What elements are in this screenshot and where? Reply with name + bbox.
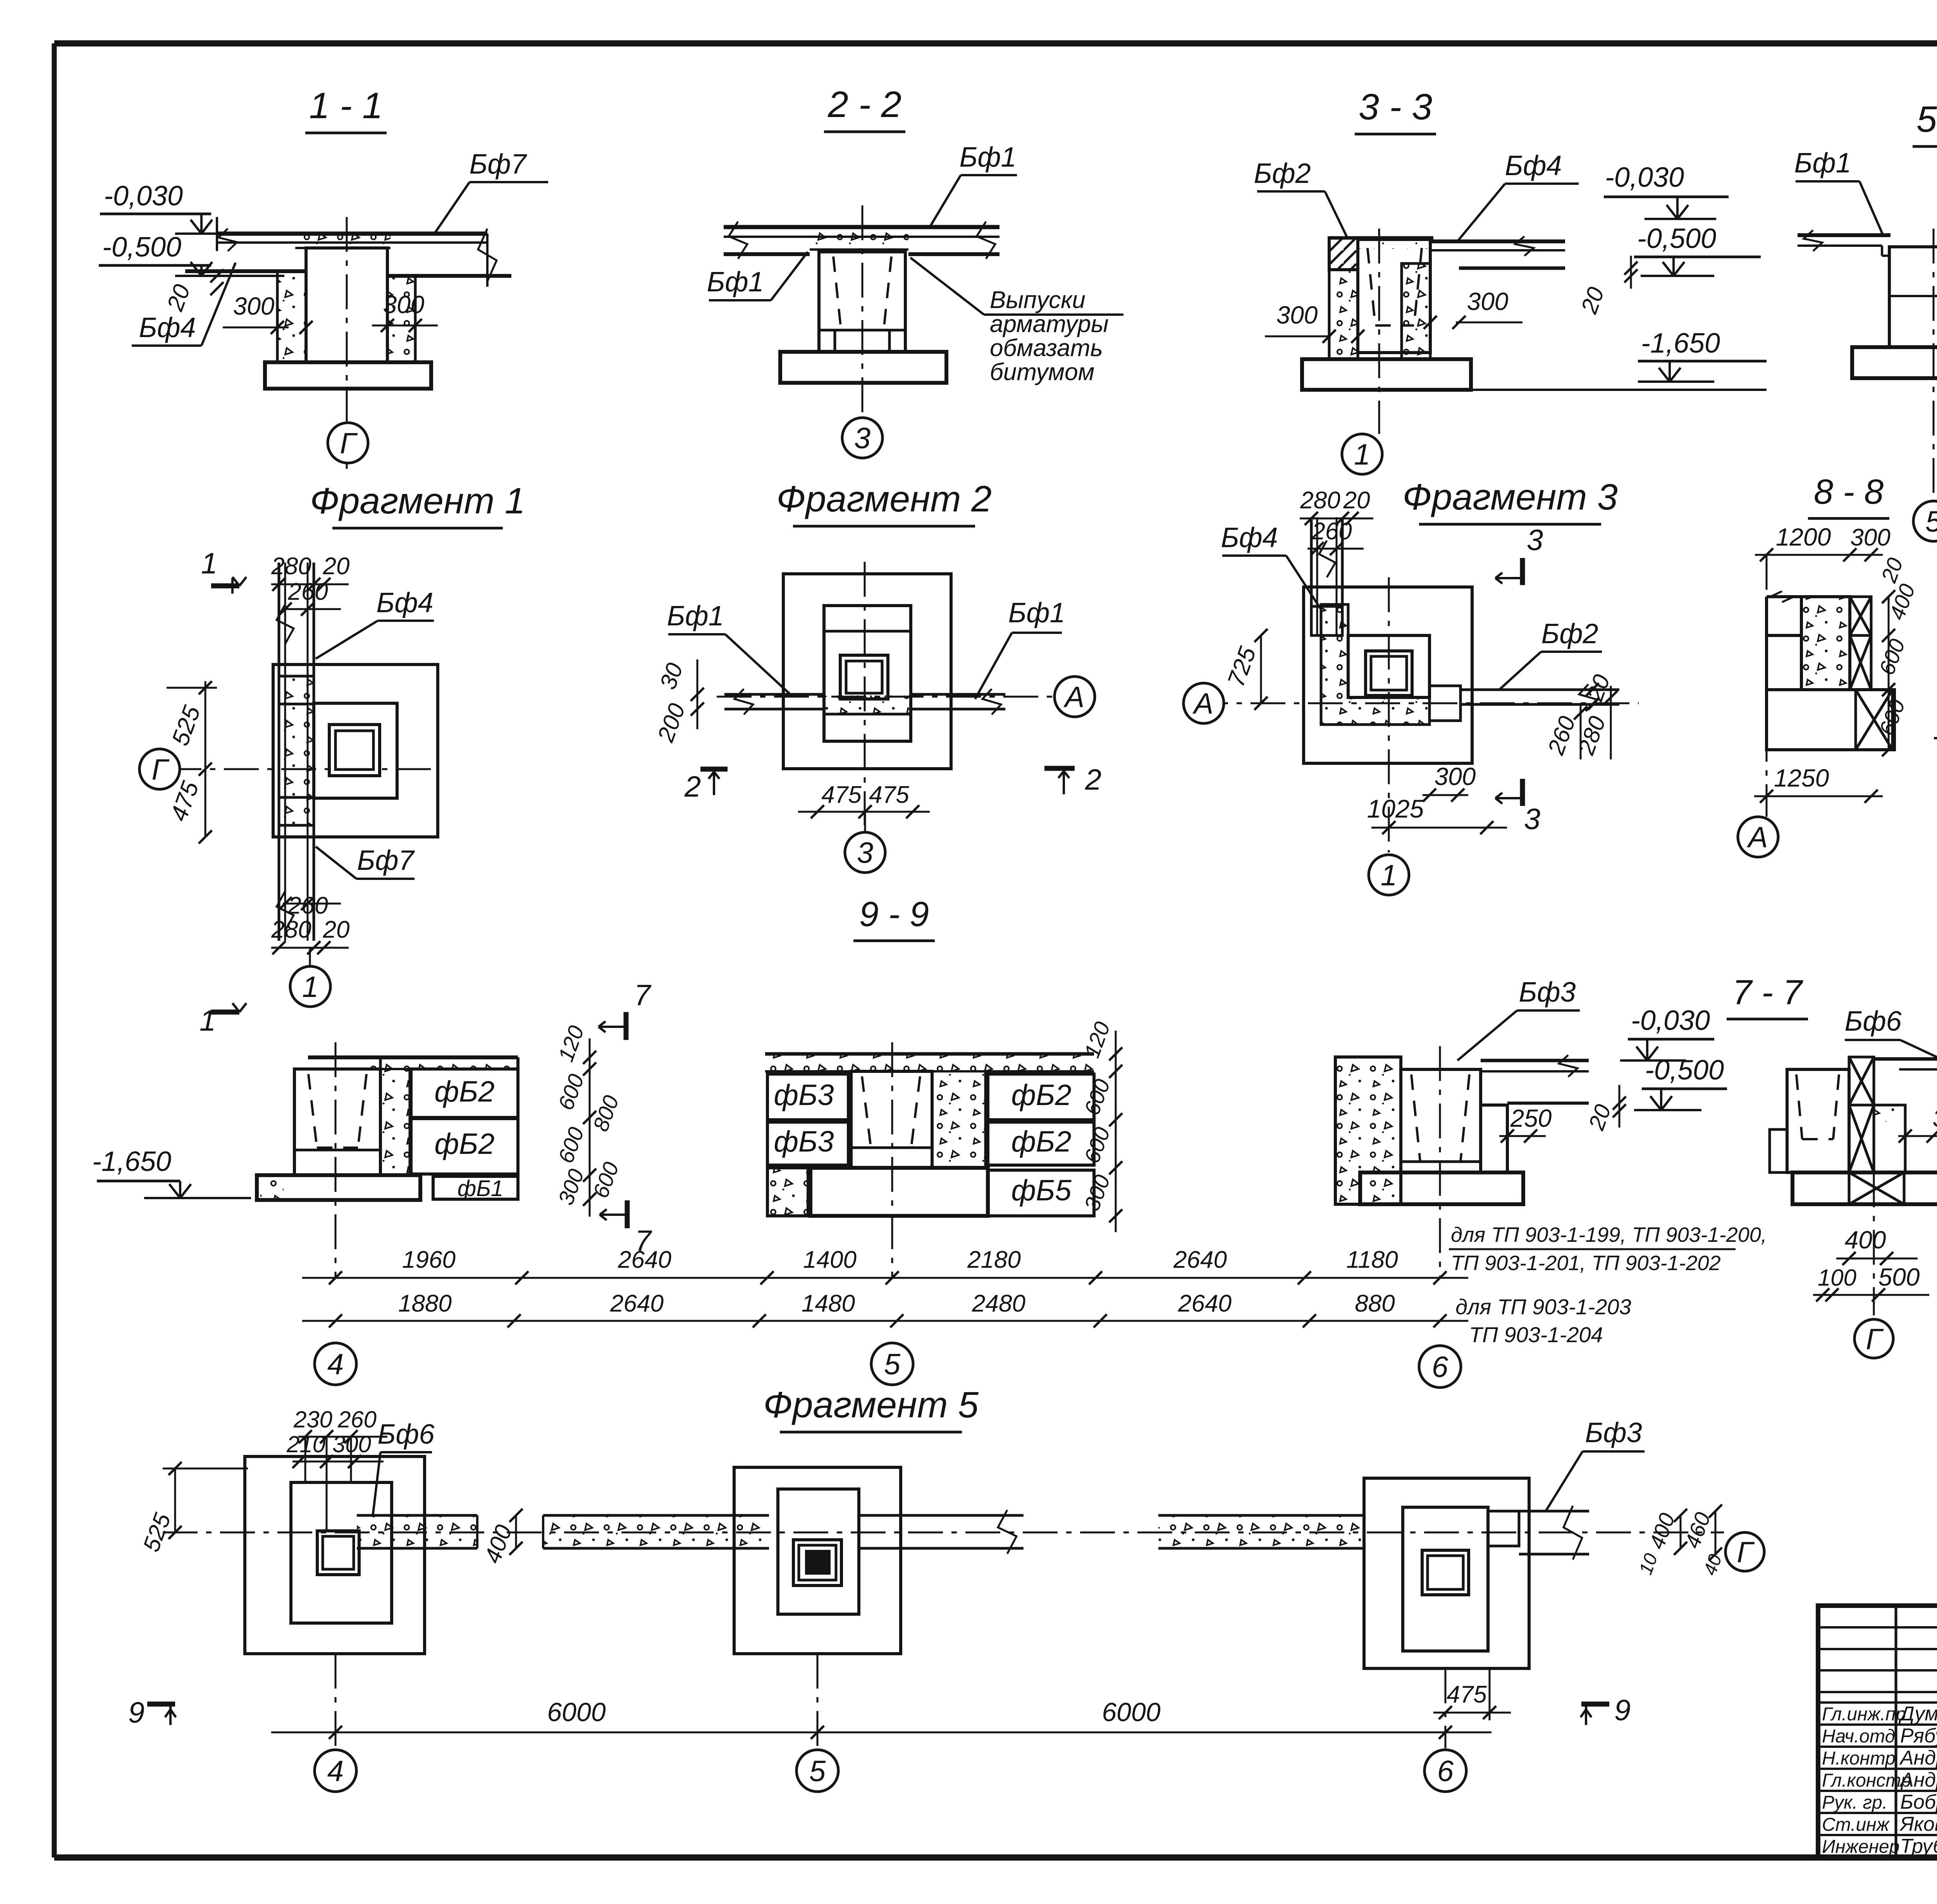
svg-text:880: 880 bbox=[1355, 1290, 1395, 1317]
svg-text:Андриевская: Андриевская bbox=[1899, 1747, 1937, 1769]
svg-text:Бф1: Бф1 bbox=[667, 601, 724, 632]
svg-text:Ст.инж: Ст.инж bbox=[1822, 1814, 1890, 1835]
svg-text:Бф3: Бф3 bbox=[1585, 1417, 1642, 1448]
svg-text:300: 300 bbox=[1467, 287, 1509, 315]
svg-text:Г: Г bbox=[1737, 1536, 1755, 1569]
svg-text:500: 500 bbox=[1879, 1263, 1920, 1291]
svg-text:A: A bbox=[1747, 821, 1768, 854]
svg-text:300: 300 bbox=[233, 292, 275, 320]
svg-text:1960: 1960 bbox=[402, 1246, 456, 1273]
svg-text:2: 2 bbox=[1085, 763, 1101, 796]
svg-text:5 - 5: 5 - 5 bbox=[1916, 99, 1937, 140]
svg-text:250: 250 bbox=[1510, 1104, 1552, 1132]
svg-text:Выпуски: Выпуски bbox=[990, 287, 1085, 313]
svg-text:Бф4: Бф4 bbox=[1505, 150, 1562, 181]
svg-text:Бф4: Бф4 bbox=[139, 312, 196, 343]
svg-text:4: 4 bbox=[327, 1755, 344, 1788]
svg-text:1180: 1180 bbox=[1346, 1246, 1398, 1273]
svg-text:100: 100 bbox=[1818, 1265, 1856, 1291]
svg-text:Думан: Думан bbox=[1898, 1703, 1937, 1725]
svg-text:для ТП 903-1-203: для ТП 903-1-203 bbox=[1455, 1295, 1631, 1319]
svg-text:400: 400 bbox=[1845, 1226, 1886, 1254]
svg-text:9 - 9: 9 - 9 bbox=[859, 895, 929, 934]
svg-text:1250: 1250 bbox=[1774, 764, 1829, 792]
svg-text:Фрагмент 2: Фрагмент 2 bbox=[776, 479, 992, 520]
svg-text:-0,030: -0,030 bbox=[104, 181, 183, 212]
svg-text:Бф3: Бф3 bbox=[1519, 977, 1576, 1008]
svg-text:475: 475 bbox=[1447, 1681, 1487, 1708]
svg-text:2480: 2480 bbox=[972, 1290, 1025, 1317]
svg-text:-0,500: -0,500 bbox=[1637, 223, 1716, 254]
svg-text:280: 280 bbox=[271, 553, 311, 580]
svg-text:1: 1 bbox=[201, 547, 217, 580]
svg-text:3: 3 bbox=[854, 422, 870, 455]
svg-text:260: 260 bbox=[337, 1406, 377, 1432]
svg-text:3: 3 bbox=[1524, 803, 1540, 836]
svg-text:фБ2: фБ2 bbox=[434, 1075, 494, 1108]
svg-text:300: 300 bbox=[1276, 301, 1318, 329]
svg-text:6: 6 bbox=[1437, 1755, 1454, 1788]
svg-text:Яковчик: Яковчик bbox=[1899, 1813, 1937, 1835]
svg-text:6000: 6000 bbox=[547, 1697, 606, 1727]
svg-text:2: 2 bbox=[684, 770, 701, 803]
svg-text:фБ2: фБ2 bbox=[434, 1128, 494, 1160]
svg-text:Бобрук: Бобрук bbox=[1900, 1791, 1937, 1813]
svg-text:Гл.констр: Гл.констр bbox=[1822, 1770, 1911, 1791]
svg-text:280: 280 bbox=[271, 916, 311, 943]
svg-text:-0,500: -0,500 bbox=[1645, 1055, 1724, 1086]
svg-text:3 - 3: 3 - 3 bbox=[1359, 86, 1432, 127]
svg-text:Бф6: Бф6 bbox=[377, 1419, 435, 1450]
svg-text:2640: 2640 bbox=[1173, 1246, 1227, 1273]
svg-text:5: 5 bbox=[1925, 505, 1937, 538]
svg-text:Бф4: Бф4 bbox=[376, 587, 433, 618]
svg-text:1 - 1: 1 - 1 bbox=[309, 85, 383, 126]
svg-text:1: 1 bbox=[302, 971, 318, 1004]
svg-text:Г: Г bbox=[151, 753, 170, 786]
svg-text:битумом: битумом bbox=[990, 359, 1094, 386]
svg-text:3: 3 bbox=[857, 837, 873, 869]
svg-text:для ТП 903-1-199, ТП 903-1-200: для ТП 903-1-199, ТП 903-1-200, bbox=[1451, 1223, 1767, 1246]
svg-text:9: 9 bbox=[1614, 1694, 1631, 1727]
svg-text:8 - 8: 8 - 8 bbox=[1814, 473, 1884, 511]
svg-text:20: 20 bbox=[323, 916, 350, 943]
svg-text:3: 3 bbox=[1527, 524, 1543, 557]
svg-text:5: 5 bbox=[809, 1755, 826, 1788]
svg-text:20: 20 bbox=[1343, 487, 1370, 514]
svg-text:475: 475 bbox=[869, 782, 909, 808]
svg-text:5: 5 bbox=[884, 1348, 901, 1381]
svg-text:фБ2: фБ2 bbox=[1011, 1079, 1071, 1112]
svg-text:2640: 2640 bbox=[618, 1246, 671, 1273]
svg-text:2 - 2: 2 - 2 bbox=[827, 84, 901, 125]
svg-text:Бф1: Бф1 bbox=[1008, 597, 1065, 628]
svg-text:1: 1 bbox=[1381, 859, 1397, 892]
svg-text:Бф7: Бф7 bbox=[469, 149, 527, 180]
svg-text:Г: Г bbox=[340, 427, 358, 460]
svg-text:Фрагмент 3: Фрагмент 3 bbox=[1402, 477, 1618, 518]
svg-text:-0,030: -0,030 bbox=[1605, 162, 1684, 193]
svg-text:2180: 2180 bbox=[967, 1246, 1021, 1273]
svg-text:300: 300 bbox=[383, 291, 425, 318]
svg-text:-0,500: -0,500 bbox=[102, 232, 181, 263]
svg-text:Рябуха: Рябуха bbox=[1900, 1725, 1937, 1747]
svg-text:Бф4: Бф4 bbox=[1221, 522, 1278, 553]
svg-text:Н.контр: Н.контр bbox=[1822, 1748, 1896, 1769]
svg-text:6: 6 bbox=[1432, 1351, 1448, 1384]
svg-text:Бф1: Бф1 bbox=[959, 142, 1016, 173]
svg-text:300: 300 bbox=[1435, 763, 1476, 790]
svg-text:Бф1: Бф1 bbox=[707, 267, 764, 298]
svg-text:1400: 1400 bbox=[803, 1246, 857, 1273]
svg-text:фБ3: фБ3 bbox=[774, 1125, 834, 1158]
svg-text:2640: 2640 bbox=[1178, 1290, 1232, 1317]
svg-text:ТП 903-1-204: ТП 903-1-204 bbox=[1469, 1322, 1603, 1347]
svg-text:6000: 6000 bbox=[1102, 1697, 1160, 1727]
svg-text:20: 20 bbox=[323, 553, 350, 580]
svg-text:Бф2: Бф2 bbox=[1254, 158, 1311, 189]
svg-text:фБ2: фБ2 bbox=[1011, 1125, 1071, 1158]
svg-text:Гл.инж.пр: Гл.инж.пр bbox=[1822, 1704, 1906, 1725]
svg-text:300: 300 bbox=[1933, 1104, 1937, 1132]
svg-text:9: 9 bbox=[128, 1696, 145, 1729]
svg-text:260: 260 bbox=[287, 578, 328, 605]
svg-text:Фрагмент 1: Фрагмент 1 bbox=[310, 480, 525, 522]
svg-text:260: 260 bbox=[287, 892, 328, 919]
svg-text:Г: Г bbox=[1866, 1323, 1884, 1356]
svg-text:фБ3: фБ3 bbox=[774, 1079, 834, 1112]
svg-text:280: 280 bbox=[1300, 487, 1340, 514]
svg-text:7 - 7: 7 - 7 bbox=[1732, 973, 1803, 1012]
svg-text:-0,030: -0,030 bbox=[1631, 1005, 1710, 1036]
svg-text:260: 260 bbox=[1311, 518, 1352, 545]
svg-text:1025: 1025 bbox=[1367, 794, 1424, 823]
svg-text:2640: 2640 bbox=[610, 1290, 664, 1317]
svg-text:ТП 903-1-201, ТП 903-1-202: ТП 903-1-201, ТП 903-1-202 bbox=[1451, 1252, 1721, 1275]
svg-text:Нач.отд: Нач.отд bbox=[1822, 1726, 1895, 1747]
svg-text:1: 1 bbox=[200, 1004, 216, 1037]
svg-text:1880: 1880 bbox=[398, 1290, 452, 1317]
svg-text:Бф1: Бф1 bbox=[1794, 148, 1851, 179]
svg-text:Фрагмент 5: Фрагмент 5 bbox=[763, 1384, 979, 1425]
svg-text:230: 230 bbox=[293, 1406, 332, 1432]
svg-text:Бф2: Бф2 bbox=[1541, 618, 1598, 649]
svg-text:1: 1 bbox=[1354, 438, 1370, 471]
svg-text:1200: 1200 bbox=[1776, 523, 1831, 551]
svg-text:Рук. гр.: Рук. гр. bbox=[1822, 1792, 1887, 1813]
svg-text:A: A bbox=[1063, 681, 1085, 714]
svg-text:Трубчанино: Трубчанино bbox=[1900, 1835, 1937, 1858]
svg-text:Бф6: Бф6 bbox=[1844, 1006, 1902, 1037]
svg-text:300: 300 bbox=[1850, 524, 1890, 551]
svg-text:4: 4 bbox=[327, 1348, 344, 1381]
svg-text:1480: 1480 bbox=[802, 1290, 855, 1317]
svg-text:обмазать: обмазать bbox=[990, 335, 1103, 362]
svg-text:Бф7: Бф7 bbox=[357, 845, 415, 876]
svg-text:475: 475 bbox=[821, 782, 862, 808]
svg-text:Инженер: Инженер bbox=[1822, 1837, 1899, 1857]
svg-text:7: 7 bbox=[634, 979, 652, 1012]
svg-text:-1,650: -1,650 bbox=[92, 1146, 171, 1177]
svg-text:A: A bbox=[1192, 687, 1214, 720]
svg-text:фБ1: фБ1 bbox=[458, 1176, 503, 1201]
svg-text:-1,650: -1,650 bbox=[1641, 328, 1720, 359]
svg-text:Андриевская: Андриевская bbox=[1899, 1769, 1937, 1791]
svg-text:фБ5: фБ5 bbox=[1011, 1174, 1072, 1207]
